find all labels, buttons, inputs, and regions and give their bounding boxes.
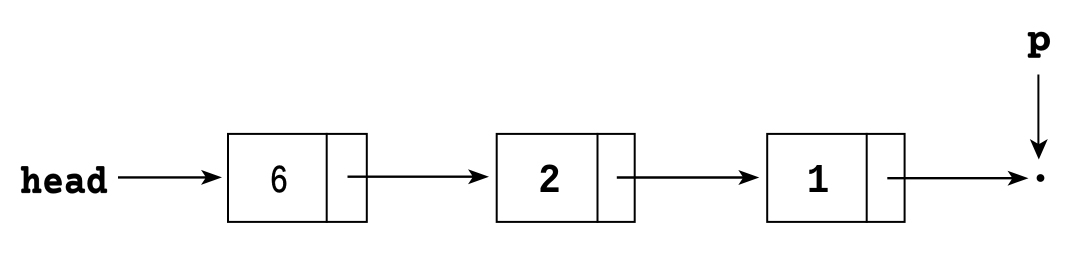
svg-text:6: 6 — [270, 158, 289, 204]
svg-text:1: 1 — [807, 159, 830, 205]
svg-text:2: 2 — [538, 159, 561, 205]
